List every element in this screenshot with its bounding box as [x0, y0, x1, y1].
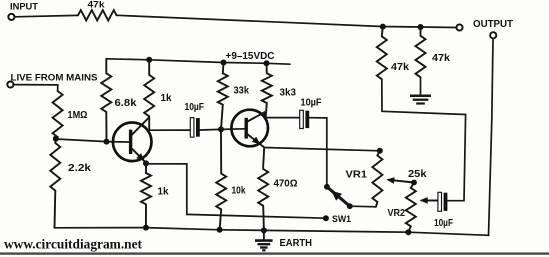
node output-divider B — [418, 24, 424, 30]
wire SW1 to VR1 bottom — [350, 205, 376, 208]
svg-text:+9–15VDC: +9–15VDC — [226, 50, 275, 62]
transistor Q1 circle — [113, 123, 152, 162]
resistor 2.2k — [50, 139, 60, 228]
node Q1 emitter — [143, 160, 149, 166]
wire Q2 emitter to VR1 — [264, 148, 380, 151]
resistor 1k (Q1 collector load) — [144, 60, 154, 130]
node earth 470 — [261, 227, 267, 233]
earth ground symbol — [263, 230, 265, 239]
svg-text:33k: 33k — [234, 84, 250, 96]
node VR1 top — [377, 148, 383, 154]
wire earth rail — [55, 228, 489, 236]
svg-text:47k: 47k — [88, 0, 106, 11]
VR2 wiper — [422, 199, 438, 201]
transistor Q2 base bar — [244, 118, 247, 139]
resistor 10k — [216, 129, 226, 229]
wire output return (right side down) — [489, 39, 494, 236]
wire Q1 collector to cap C1 — [149, 129, 190, 131]
SW1 open contact — [323, 215, 329, 221]
potentiometer VR1 body — [372, 151, 382, 207]
svg-text:www.circuitdiagram.net: www.circuitdiagram.net — [4, 237, 142, 252]
page rule (bottom) — [0, 252, 549, 254]
wire Q2 base — [221, 128, 245, 131]
svg-text:EARTH: EARTH — [280, 238, 313, 249]
node VR1 wiper / VR2 top — [411, 180, 417, 186]
wire Q2 collector to C2 — [266, 117, 300, 119]
switch SW1 throw node — [347, 203, 353, 209]
node base Q1 / 6.8k — [104, 139, 110, 145]
switch SW1 arm arrow — [331, 191, 342, 201]
transistor Q2 circle — [231, 110, 268, 147]
svg-text:1k: 1k — [161, 92, 172, 104]
VR1 wiper arrow — [386, 177, 394, 184]
wire 47k div1 to coupling cap — [382, 79, 466, 114]
transistor Q1 emitter lead — [132, 149, 146, 163]
VR2 wiper arrow — [420, 197, 428, 204]
svg-text:6.8k: 6.8k — [115, 97, 137, 109]
node earth VR2 — [405, 229, 411, 235]
svg-text:470Ω: 470Ω — [274, 177, 298, 189]
transistor Q1 collector lead — [132, 118, 149, 135]
potentiometer VR2 body — [406, 183, 416, 233]
svg-text:VR1: VR1 — [346, 169, 368, 181]
svg-text:OUTPUT: OUTPUT — [473, 18, 514, 30]
resistor 3k3 — [262, 63, 272, 117]
node earth 10k — [217, 227, 223, 233]
transistor Q1 base bar — [129, 130, 132, 154]
wire Q1 emitter to SW1 contact — [146, 164, 326, 218]
transistor Q1 emitter arrow — [136, 153, 144, 161]
output terminal 2 — [490, 32, 496, 38]
wire 47k div2 to chassis ground — [420, 77, 422, 94]
node rail 3k3 — [264, 60, 270, 66]
wire base bias to Q1 — [56, 139, 130, 142]
transistor Q2 emitter arrow — [252, 137, 261, 145]
output terminal 1 — [456, 24, 462, 30]
svg-text:10µF: 10µF — [434, 217, 453, 229]
svg-text:1MΩ: 1MΩ — [68, 109, 88, 121]
VR1 wiper — [389, 180, 415, 183]
wire +9-15VDC rail — [106, 59, 290, 64]
svg-text:25k: 25k — [408, 168, 427, 180]
node rail 33k — [221, 60, 227, 66]
capacitor C3 10uF — [438, 192, 442, 211]
svg-text:47k: 47k — [391, 62, 409, 73]
wire C3 to 47k divider — [447, 115, 466, 201]
svg-text:2.2k: 2.2k — [68, 162, 91, 174]
transistor Q2 collector lead — [248, 112, 266, 121]
wire input to R-47k — [15, 15, 79, 16]
svg-text:10µF: 10µF — [301, 96, 322, 108]
resistor 33k — [218, 63, 228, 130]
switch SW1 pole — [324, 184, 330, 190]
resistor 6.8k — [101, 59, 111, 142]
wire top rail to output — [117, 15, 457, 27]
svg-text:VR2: VR2 — [388, 207, 406, 219]
transistor Q2 emitter lead — [248, 134, 265, 147]
resistor 1M&#937; — [53, 91, 63, 139]
mains terminal — [7, 81, 13, 87]
capacitor C1 10uF — [190, 118, 194, 138]
resistor 47k R-div2 — [416, 27, 426, 77]
chassis ground (top right) — [410, 94, 431, 97]
resistor 470 (Q2 emitter) — [258, 147, 268, 230]
capacitor C2 10uF — [300, 110, 304, 128]
wire mains to 1M — [14, 85, 58, 91]
svg-text:10k: 10k — [232, 185, 246, 197]
svg-text:47k: 47k — [432, 53, 450, 64]
svg-text:3k3: 3k3 — [280, 86, 297, 98]
node rail 1k — [146, 57, 152, 63]
resistor 1k (Q1 emitter) — [141, 163, 151, 227]
node output-divider A — [380, 24, 386, 30]
input terminal — [8, 14, 14, 20]
svg-text:INPUT: INPUT — [10, 1, 38, 12]
svg-text:10µF: 10µF — [185, 101, 205, 113]
wire C2 to switch pole — [309, 118, 327, 187]
node earth 1k — [143, 225, 149, 231]
svg-text:SW1: SW1 — [332, 214, 352, 225]
svg-text:1k: 1k — [158, 185, 169, 197]
switch SW1 arm — [327, 187, 350, 206]
svg-text:LIVE FROM MAINS: LIVE FROM MAINS — [11, 73, 98, 84]
resistor 47k R-div1 — [377, 27, 387, 80]
node Q2 base — [218, 126, 224, 132]
node bias junction — [53, 136, 59, 142]
wire C1 to Q2 base node — [200, 128, 221, 131]
resistor 47k (series input) — [78, 10, 117, 20]
